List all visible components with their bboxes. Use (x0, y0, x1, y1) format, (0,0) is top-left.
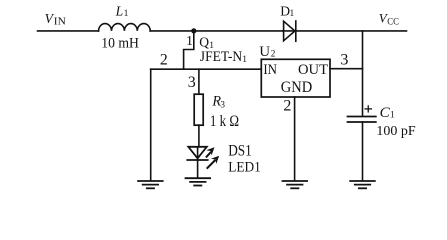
label 1 k ohm (210, 113, 239, 130)
node VCC label (379, 10, 399, 27)
label 10 mH (101, 36, 139, 52)
label pin 1 (186, 34, 193, 49)
diode D1 (284, 21, 296, 41)
wire (197, 147, 199, 160)
ground (138, 181, 163, 188)
svg-text:C: C (380, 105, 391, 121)
svg-text:IN: IN (263, 62, 277, 78)
LED DS1 (187, 147, 219, 168)
inductor L1 (99, 24, 151, 31)
label D1 (280, 4, 294, 20)
resistor R3 (194, 94, 203, 125)
wire (362, 122, 364, 180)
ground (283, 181, 308, 188)
ground (186, 178, 211, 185)
label pin 3 out (340, 52, 348, 69)
svg-text:LED1: LED1 (228, 160, 261, 176)
label Q1 (199, 34, 214, 51)
wire (198, 69, 200, 94)
svg-text:2: 2 (271, 49, 276, 59)
svg-text:JFET-N: JFET-N (200, 49, 243, 65)
label pin 2 (160, 51, 168, 68)
wire (38, 30, 99, 32)
svg-text:3: 3 (340, 52, 348, 69)
label IN (263, 62, 277, 78)
label C1 (380, 105, 395, 121)
label L1 (115, 3, 129, 19)
node junction (191, 28, 196, 33)
ground (350, 181, 375, 188)
wire (151, 68, 262, 70)
label pin 2 gnd (283, 98, 291, 115)
svg-text:2: 2 (160, 51, 168, 68)
label OUT (298, 62, 328, 78)
label pin 3 (188, 74, 196, 91)
wire (294, 97, 296, 180)
svg-text:1: 1 (186, 34, 193, 49)
svg-text:3: 3 (220, 99, 225, 109)
svg-text:1 k Ω: 1 k Ω (210, 113, 239, 130)
node VIN label (45, 11, 66, 28)
label plus (365, 106, 371, 112)
svg-text:10 mH: 10 mH (101, 36, 139, 52)
svg-text:100 pF: 100 pF (376, 123, 416, 138)
svg-text:1: 1 (242, 55, 247, 65)
wire (150, 30, 283, 32)
label LED1 (228, 160, 261, 176)
label 100 pF (376, 123, 416, 138)
transistor Q1 (184, 31, 194, 69)
svg-text:3: 3 (188, 74, 196, 91)
svg-text:2: 2 (283, 98, 291, 115)
svg-text:1: 1 (290, 9, 295, 19)
op-amp U2 box (261, 59, 330, 97)
capacitor C1 (348, 117, 376, 123)
wire (150, 69, 152, 180)
svg-text:Q: Q (199, 34, 209, 49)
svg-text:DS1: DS1 (228, 143, 252, 160)
svg-text:CC: CC (387, 17, 399, 28)
svg-text:OUT: OUT (298, 62, 328, 78)
svg-text:IN: IN (54, 16, 66, 28)
wire (330, 68, 363, 70)
svg-text:L: L (115, 3, 124, 18)
label DS1 (228, 143, 252, 160)
wire (197, 160, 199, 177)
svg-text:U: U (259, 44, 270, 60)
wire (283, 30, 407, 32)
label GND (281, 79, 312, 96)
wire (362, 31, 364, 116)
label JFET-N1 (200, 49, 248, 65)
label R3 (211, 93, 225, 109)
svg-text:1: 1 (390, 111, 395, 121)
svg-text:1: 1 (124, 9, 129, 19)
wire (198, 125, 200, 147)
label U2 (259, 44, 275, 60)
svg-text:GND: GND (281, 79, 312, 96)
